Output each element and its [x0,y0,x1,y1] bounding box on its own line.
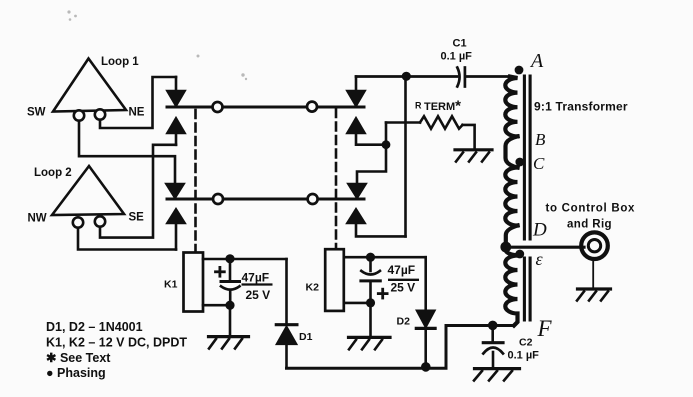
junction feed/A [402,72,411,81]
antenna Loop 1 [53,59,126,112]
junction tap D [500,242,511,253]
relay K2 linkage dashed [335,109,338,249]
wire transformer F to rail [287,326,515,369]
svg-text:25 V: 25 V [391,281,416,295]
svg-text:0.1 µF: 0.1 µF [508,350,540,362]
relay K1 contact bar row 1 [167,106,364,109]
contact arrow row1 left up [168,119,185,145]
contact arrow row2 left down [167,184,184,198]
C3 polarity plus [216,267,225,276]
phasing dot E [515,250,524,259]
svg-text:D1, D2 – 1N4001: D1, D2 – 1N4001 [46,320,143,334]
value C4 47uF [388,263,420,295]
transformer core upper [524,76,530,239]
transformer core lower [524,258,530,320]
wire top feed to C1 [356,75,457,78]
winding jog D [506,226,518,248]
svg-text:F: F [537,316,553,341]
ground at K1 [209,337,249,349]
svg-text:47µF: 47µF [388,263,416,277]
contact arrow row1 left down [168,77,185,106]
capacitor C2 [483,326,503,368]
relay coil K2 [325,249,344,311]
capacitor C3 47uF electrolytic [221,259,240,305]
winding jog to E [506,247,518,256]
ground at K2 [349,337,391,349]
winding jog B to C [506,136,518,167]
capacitor C1 plates [457,68,465,87]
svg-text:C1: C1 [453,38,467,50]
junction K2 + [366,253,375,262]
row1 pivot circle right [307,102,317,112]
svg-text:Loop 2: Loop 2 [34,167,72,179]
svg-text:✱ See Text: ✱ See Text [46,351,111,365]
wire tap D to coax jack [507,246,584,249]
wire K1 coil - [203,304,230,307]
junction D2 rail [421,362,431,372]
antenna Loop 2 [52,166,124,215]
svg-text:D2: D2 [397,316,411,328]
svg-text:SE: SE [129,212,145,224]
svg-text:D: D [532,220,547,241]
C4 polarity plus [378,289,387,298]
svg-text:K2: K2 [306,282,320,294]
svg-text:Loop 1: Loop 1 [101,56,139,68]
svg-text:C2: C2 [519,337,533,349]
transformer T1 primary winding A-B [505,77,517,137]
relay coil K1 [184,253,204,312]
svg-text:D1: D1 [299,331,313,343]
svg-text:K1, K2 – 12 V DC, DPDT: K1, K2 – 12 V DC, DPDT [46,336,187,350]
ground at jack [577,289,611,301]
wire C1 to transformer A [466,75,510,78]
relay K1 linkage dashed [194,110,197,252]
wire jack to ground [592,260,594,288]
capacitor C4 47uF electrolytic [361,257,380,303]
wire C3 to ground [229,305,232,335]
wire K2 coil - [344,302,371,305]
wire C4 to ground [369,303,372,336]
svg-text:NE: NE [129,107,145,119]
Loop 2 terminal circle NW [73,217,83,227]
svg-text:47µF: 47µF [242,271,270,285]
junction K2 - [366,298,375,307]
junction C2 tap [488,321,498,331]
contact arrow row1 right down [348,77,365,106]
wire SE to row1 NC contact [100,145,176,238]
junction NC contacts [382,140,391,149]
svg-text:and Rig: and Rig [567,219,612,231]
junction K1 - [225,301,234,310]
value C3 47uF [242,271,273,303]
contact arrow row2 right down [349,123,387,198]
diode D2 [416,257,435,367]
wire NW to row2 NC contact [78,229,176,250]
resistor R TERM [386,116,475,148]
Loop 1 terminal circle SW [74,110,84,120]
contact arrow row2 left up [168,210,185,250]
Loop 1 terminal circle NE [95,109,105,119]
wire feed down to row2 up contact [404,77,407,237]
svg-text:9:1 Transformer: 9:1 Transformer [534,100,628,114]
relay K1 contact bar row 2 [167,198,364,201]
svg-text:0.1 µF: 0.1 µF [441,51,473,63]
wire K2 coil + [344,256,426,259]
wire NE to row1 NO contact [100,77,176,128]
Loop 2 terminal circle SE [95,216,105,226]
ground at R TERM [455,150,492,162]
transformer T1 winding E-F [505,256,517,326]
svg-text:to Control Box: to Control Box [546,203,636,215]
svg-text:K1: K1 [164,279,178,291]
row1 pivot circle left [213,102,223,112]
wire K1 coil + [203,258,287,261]
phasing dot A [515,66,524,75]
svg-text:25 V: 25 V [246,288,271,302]
row2 pivot circle right [308,194,318,204]
transformer T1 winding C-D [505,168,517,226]
svg-text:B: B [535,130,546,149]
diode D1 [276,259,297,368]
svg-text:NW: NW [28,213,47,225]
svg-text:C: C [533,154,545,173]
svg-text:SW: SW [27,107,46,119]
contact arrow row1 right up [348,119,387,145]
coax jack J1 [581,232,608,259]
svg-text:● Phasing: ● Phasing [46,366,106,380]
wire SW to row2 NO contact [79,121,175,184]
phasing dot C [515,158,524,167]
row2 pivot circle left [213,194,223,204]
svg-text:A: A [529,50,544,72]
ground at C2 [474,369,520,381]
contact arrow row2 right up [348,210,406,237]
svg-text:ε: ε [536,249,544,269]
junction K1 + [225,254,234,263]
